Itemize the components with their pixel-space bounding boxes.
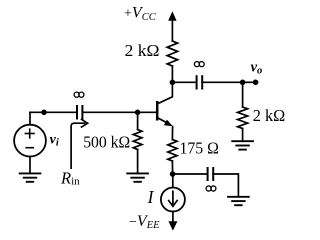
power +VCC arrow (168, 11, 176, 41)
wire base node to RB (137, 112, 139, 129)
ground (vi) (19, 173, 42, 181)
transistor Q1 base bar (156, 101, 159, 121)
svg-text:2 kΩ: 2 kΩ (253, 106, 285, 125)
wire RL to ground (242, 129, 244, 142)
wire emitter node to CE (173, 173, 208, 175)
capacitor C2 (output coupling, infinite) (197, 75, 203, 89)
label infinity (CE) (206, 186, 216, 191)
node collector junction dot (170, 80, 176, 86)
resistor RB 500 kOhm (133, 130, 142, 150)
node vo terminal dot (253, 80, 259, 86)
current source I (161, 188, 185, 212)
svg-text:500 kΩ: 500 kΩ (83, 133, 130, 152)
wire emitter node to current source (172, 174, 174, 188)
wire RE to emitter node (171, 161, 173, 174)
ground (RB) (126, 173, 149, 181)
node input dot (41, 110, 47, 116)
wire input node to C1 (30, 111, 77, 113)
resistor RE 175 Ohm (168, 140, 177, 162)
svg-text:+VCC: +VCC (124, 5, 157, 23)
svg-text:Rin: Rin (60, 169, 80, 188)
wire C2 to output node (202, 81, 242, 83)
wire collector node to coupling cap (172, 81, 196, 83)
svg-text:vi: vi (50, 132, 59, 148)
transistor Q1 collector lead (158, 82, 173, 103)
svg-text:−VEE: −VEE (129, 213, 160, 231)
annotation Rin arrow (71, 119, 88, 168)
resistor RC 2 kOhm (167, 41, 177, 66)
wire C1 to base (82, 111, 156, 113)
node output junction dot (240, 80, 246, 86)
wire RC bottom to collector node (171, 66, 173, 82)
capacitor C1 (input coupling, infinite) (77, 105, 82, 120)
wire vi bottom to ground (29, 157, 31, 174)
label infinity (C1) (74, 92, 84, 97)
ground (CE) (227, 197, 250, 205)
svg-text:I: I (147, 187, 155, 207)
source vi minus sign (25, 147, 34, 149)
wire RB to ground (137, 150, 139, 174)
node emitter junction dot (170, 171, 176, 177)
source vi plus sign (25, 128, 35, 138)
power -VEE arrow (168, 212, 177, 231)
capacitor CE (bypass, infinite) (208, 167, 214, 181)
svg-text:2 kΩ: 2 kΩ (125, 41, 160, 60)
svg-text:175 Ω: 175 Ω (180, 139, 219, 158)
node base junction dot (135, 110, 141, 116)
resistor RL 2 kOhm (238, 107, 248, 129)
svg-text:vo: vo (251, 59, 263, 76)
wire vi top to input node (29, 112, 31, 124)
label infinity (C2) (194, 62, 204, 67)
wire CE to ground (213, 174, 238, 197)
source vi circle (14, 125, 46, 157)
ground (load) (231, 141, 254, 149)
transistor Q1 emitter lead with arrow (158, 118, 173, 140)
wire output node to RL (242, 82, 244, 107)
wire output node to vo terminal (243, 81, 256, 83)
